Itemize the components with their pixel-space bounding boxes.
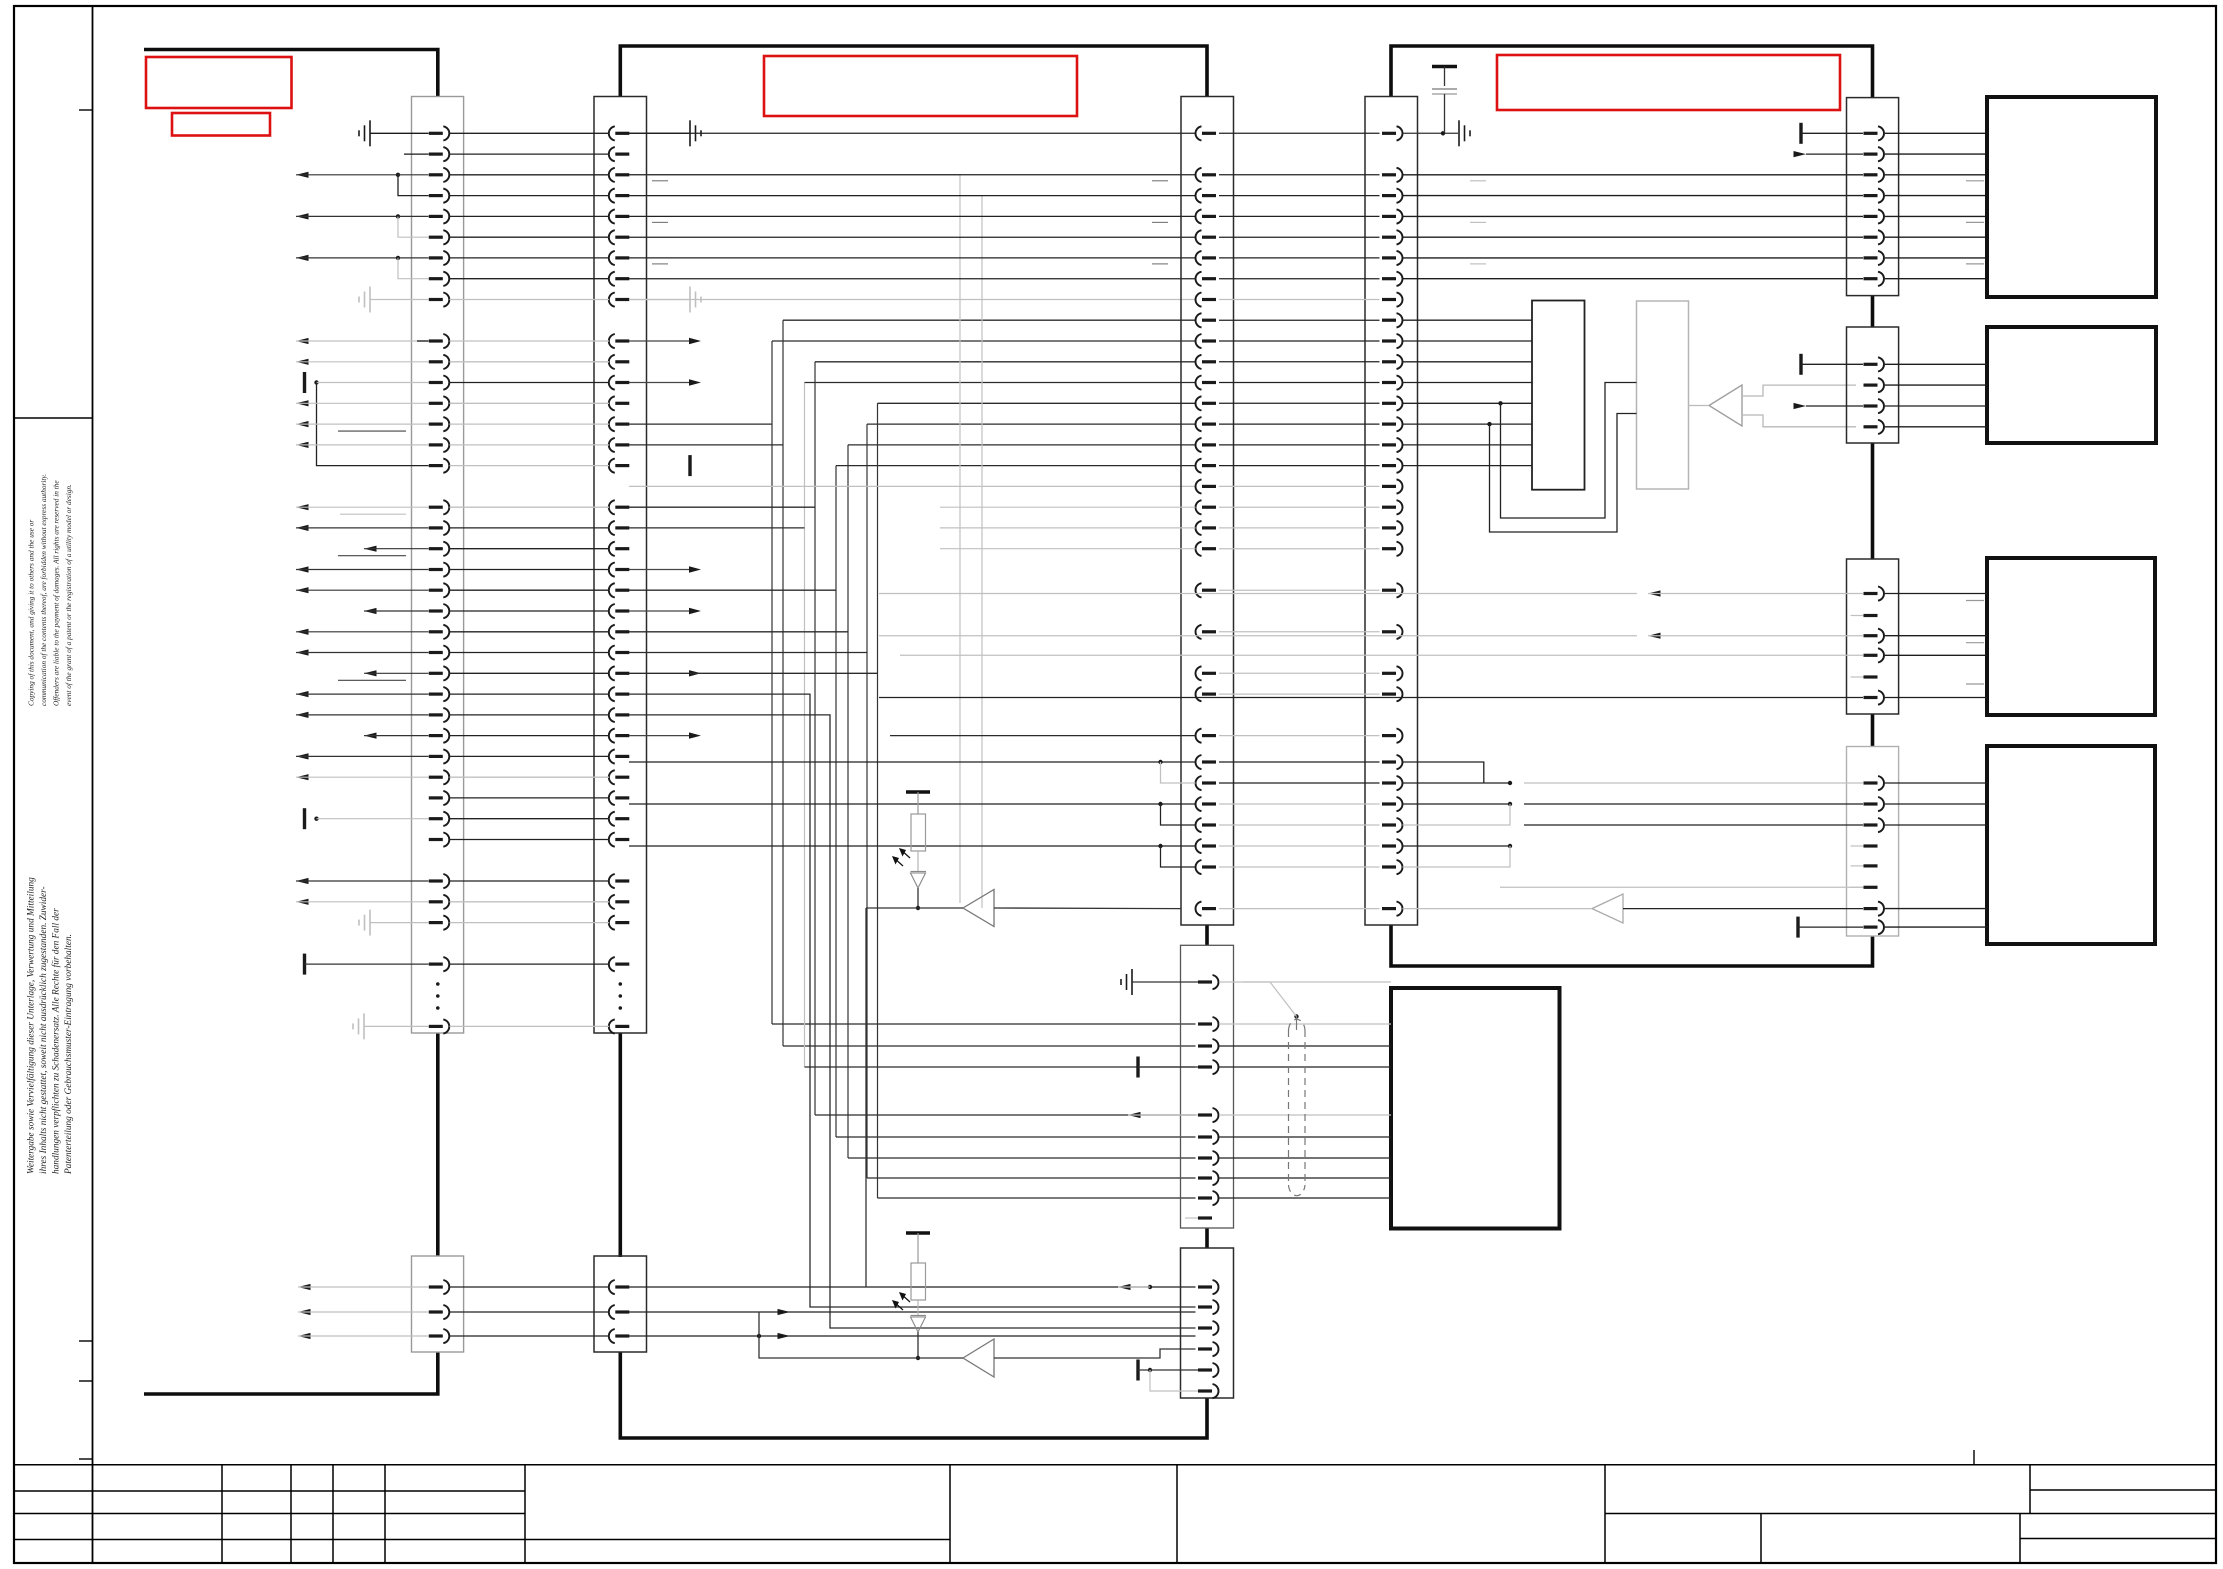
signal arrow X1 row6 (296, 255, 309, 261)
ground symbol at X3b row 982 (1131, 969, 1133, 995)
riser wire to LED line 1 (865, 908, 867, 1287)
connector X3b (1181, 945, 1234, 1228)
svg-text:ihres Inhalts nicht gestattet,: ihres Inhalts nicht gestattet, soweit ni… (39, 886, 49, 1174)
termination X2 right row16b (688, 455, 691, 476)
frame margin column line (92, 6, 94, 1563)
shield junction dot (1294, 1014, 1298, 1018)
margin tick y1381 (79, 1380, 93, 1382)
supply rail bar 1 (906, 790, 930, 793)
termination X6 row0 (1799, 354, 1802, 375)
termination X3c row 1370 (1136, 1360, 1139, 1381)
junction dot U-loop 2 (1487, 422, 1491, 426)
svg-text:Weitergabe sowie Vervielfältig: Weitergabe sowie Vervielfältigung dieser… (26, 877, 37, 1174)
label underline X1 row26 (338, 679, 406, 681)
svg-text:Copying of this document, and: Copying of this document, and giving it … (27, 520, 36, 706)
cable shield symbol (1289, 1019, 1306, 1195)
signal arrows X1 rows10-11 (296, 338, 309, 344)
signal arrow X1 row18 (296, 504, 309, 510)
svg-text:event of the grant of a patent: event of the grant of a patent or the re… (64, 484, 73, 706)
wires X6 to module A2 (1885, 364, 1987, 427)
margin tick y1341 (79, 1340, 93, 1342)
buffer gate B4 (963, 1339, 994, 1377)
margin tick y1459 (79, 1458, 93, 1460)
direction arrow X2 right row29 (629, 735, 689, 737)
buffer gate B3 (963, 890, 994, 927)
title block grid (14, 1465, 2216, 1563)
direction arrow on crossover row26 (689, 670, 701, 676)
junction dot and pair-link X1 rows4-5 (396, 214, 400, 218)
margin divider y418 (14, 417, 93, 419)
light stub wires into X3 rows 18-20 (940, 506, 1196, 508)
light ground symbol at X2 right row8 (629, 299, 690, 301)
red highlight box 4 (1497, 55, 1840, 110)
module A2 (1987, 327, 2156, 443)
connector X8 (1847, 747, 1899, 937)
crossover harness bundle (629, 320, 1196, 1198)
block U1 (buffer register) (1532, 301, 1585, 490)
signal arrows X1 rows19-31 (296, 525, 429, 781)
pair wires and dots at X3 left (629, 760, 1196, 867)
red highlight box 1 (146, 57, 292, 108)
connector X1b (412, 1256, 464, 1352)
termination X8 row 927 (1796, 917, 1799, 938)
buffer gate B2 (gray) (1592, 894, 1623, 923)
label underline X1 row20 (338, 555, 406, 557)
wire X8 row 804 (1524, 803, 1863, 805)
pair wires and dots at X4 right (1403, 762, 1513, 867)
wires X8 to module A4 (1885, 783, 1987, 927)
light branch verticals from X2 rows 2-3 (629, 175, 960, 903)
junction dot and pair-link X1 rows6-7 (396, 256, 400, 260)
arrow X3c row 1287 (1148, 1285, 1152, 1289)
margin disclaimer text german (rotated) (26, 877, 75, 1175)
direction arrows on X2b wires (778, 1309, 791, 1315)
termination X3b row 1067 (1136, 1057, 1139, 1078)
long wires X4-X5 (1403, 175, 1864, 279)
termination X1 row40 (303, 954, 306, 975)
connector X2 (594, 97, 647, 1034)
stub wire X1 row1 (404, 153, 429, 155)
supply rail bar 2 (906, 1231, 930, 1234)
connector X5 (1847, 98, 1899, 296)
connector X3c (1181, 1248, 1234, 1398)
svg-text:Patenterteilung oder Gebrauchs: Patenterteilung oder Gebrauchsmuster-Ein… (64, 934, 74, 1175)
wire X7 row 697 (879, 697, 1863, 699)
wire X8 row 783 (light) (1524, 782, 1863, 784)
termination X1 row33 (303, 808, 306, 829)
label underline dashes at module A1 (1966, 180, 1984, 182)
direction arrow X6 row2 (1794, 403, 1807, 409)
wire X4 row0 to ground (1403, 132, 1459, 134)
wires X5 to module A1 (1885, 133, 1987, 278)
label underline dashes mid-right (1470, 180, 1486, 182)
long wires X2-X3 (629, 133, 1196, 486)
termination and branch X1 row12 (303, 372, 306, 393)
label underline X1 row14 (338, 430, 406, 432)
svg-text:Offenders are liable to the pa: Offenders are liable to the payment of d… (52, 480, 61, 706)
block U2 (light register) (1637, 301, 1689, 489)
U-loop wire 1 (1501, 383, 1637, 519)
connector X7 (1847, 559, 1899, 714)
bus wire W2 (middle cable loop) (620, 46, 1207, 97)
buffer B1 output wire (1689, 405, 1710, 407)
harness wires X3-X4 (1219, 133, 1380, 908)
connector X1 (412, 97, 464, 1034)
resistor R2 (917, 1233, 919, 1263)
signal arrow X1 row36 (296, 878, 309, 884)
pin label underlines X2 (652, 180, 668, 182)
wire through buffer B2 (1403, 908, 1593, 910)
wires into X7 with arrows (1648, 590, 1661, 596)
margin disclaimer text english (rotated) (27, 474, 74, 706)
svg-text:handlungen verpflichten zu Sch: handlungen verpflichten zu Schadenersatz… (51, 908, 62, 1174)
title block centering tick x1974 (1973, 1450, 1975, 1465)
resistor R1 (917, 792, 919, 814)
connector X4 (1365, 97, 1418, 926)
stub wire into X3 row 29 (890, 735, 1196, 737)
capacitor C1 (1432, 65, 1457, 68)
light ground symbol at X1 row43 (363, 1013, 365, 1039)
wires X7 to module A3 (1885, 594, 1987, 698)
wires X3b to module A5 (1219, 982, 1391, 1198)
staircase wires to X3c (629, 694, 1196, 1307)
direction arrows X2 right (629, 338, 701, 614)
wire X8 row 887 (light) (1500, 886, 1863, 888)
LED D2 (917, 1300, 919, 1316)
arrows into X1b (298, 1284, 311, 1290)
U-loop wire 2 (1490, 414, 1637, 533)
pin label underlines X3 (1152, 180, 1168, 182)
ground symbol at X2 right row0 (629, 132, 690, 134)
module A5 (bottom center) (1391, 988, 1560, 1229)
label underline dashes at module A3 (1966, 600, 1984, 602)
wire through B4 (759, 1312, 963, 1358)
connector X6 (1847, 327, 1899, 443)
module A3 (1987, 558, 2155, 715)
harness wires X1-X2 (450, 133, 610, 1026)
margin tick y110 (79, 109, 93, 111)
harness wires X1b-X2b (450, 1286, 610, 1288)
wires X2b to X3c (629, 1286, 1196, 1288)
junction dot U-loop 1 (1498, 401, 1502, 405)
junction dot LED 1 (917, 888, 919, 908)
red highlight box 3 (764, 56, 1077, 116)
LED D1 (917, 851, 919, 872)
module A1 (1987, 97, 2156, 297)
buffer B1 input fork (1742, 385, 1856, 396)
signal arrow X1 row37 (296, 899, 309, 905)
wires X4 to U1 (1403, 320, 1533, 465)
label underline X1 row18 (340, 513, 406, 515)
svg-text:communication of the contents: communication of the contents thereof, a… (39, 474, 48, 706)
signal arrow X1 row15 (296, 442, 309, 448)
arrow X3b row 1115 (1128, 1112, 1141, 1118)
junction dot and pair-link X1 rows2-3 (396, 173, 400, 177)
signal arrow X1 row4 (296, 213, 309, 219)
wire X7 row 655 (900, 654, 1863, 656)
signal arrow X1 row14 (296, 421, 309, 427)
ground symbol at X1 row0 (369, 120, 371, 146)
light ground symbol at X1 row38 (369, 910, 371, 936)
light ground symbol at X1 row8 (369, 287, 371, 313)
termination X5 row0 (1799, 123, 1802, 144)
bus wire W3 (right cable loop) (1391, 46, 1873, 98)
module A4 (1987, 746, 2155, 944)
wire X8 row 825 (1524, 824, 1863, 826)
junction dot capacitor node (1441, 131, 1445, 135)
direction arrow X5 row1 (1794, 151, 1807, 157)
wire through B3 (866, 907, 963, 909)
connector X2b (594, 1256, 647, 1352)
signal arrow X1 row2 (296, 172, 309, 178)
signal arrow X1 row13 (296, 400, 309, 406)
bus wire W1 (left cable loop) (144, 50, 438, 98)
junction dot LED 2 (917, 1332, 919, 1358)
connector X3 (1181, 97, 1234, 926)
ground symbol at capacitor (1458, 120, 1460, 146)
red highlight box 2 (172, 113, 270, 136)
buffer gate B1 (large, gray) (1709, 385, 1742, 426)
